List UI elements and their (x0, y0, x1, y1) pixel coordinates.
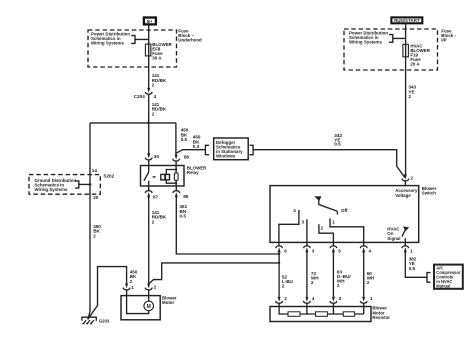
label BLOWER Relay (187, 166, 207, 176)
label Accessory Voltage (395, 188, 418, 198)
svg-text:5: 5 (338, 248, 341, 253)
label 382 YE 0.5 (409, 257, 417, 271)
svg-text:3: 3 (312, 248, 315, 253)
svg-text:C204: C204 (134, 94, 145, 99)
switch pin 3 connector (304, 242, 315, 253)
svg-text:2: 2 (154, 285, 157, 290)
svg-text:4: 4 (369, 248, 372, 253)
label 60 WH 2 (367, 271, 375, 285)
fuse block underhood dashed box (88, 30, 177, 67)
relay coil link dash (153, 176, 156, 178)
svg-text:2: 2 (367, 280, 370, 285)
svg-text:4: 4 (312, 296, 315, 301)
ground distribution dashed box (29, 175, 100, 195)
wire B+ to fuse EF8 (148, 25, 150, 44)
svg-text:2: 2 (130, 279, 133, 284)
label 63 D-BU/WH 2 (337, 270, 352, 288)
wire 450 BK right branch (175, 123, 177, 154)
switch pin 1 connector (402, 242, 413, 253)
svg-text:20 A: 20 A (410, 61, 420, 66)
svg-text:2: 2 (152, 111, 155, 116)
wire 52 L-BU switch pin 6 to resistor pin 2 (278, 252, 280, 297)
svg-text:30 A: 30 A (152, 55, 162, 60)
svg-text:3: 3 (339, 296, 342, 301)
switch pin 5 connector (330, 242, 341, 253)
label HVAC On Signal (387, 226, 400, 240)
wire 343 YE fuse to switch pin 2 (405, 57, 407, 175)
label fuse block I/P (441, 28, 456, 42)
wire 450 BK left branch to ground (88, 123, 90, 319)
svg-text:Manual: Manual (436, 284, 450, 289)
wire 141 RD/BK fuse to C204 (148, 56, 150, 88)
svg-text:Voltage: Voltage (395, 193, 411, 198)
resistor pin 1 connector (360, 296, 373, 307)
defogger reference box (205, 138, 253, 160)
label 141 RD/BK 2 (relay output) (152, 210, 167, 224)
motor pin 2 connector (145, 283, 157, 295)
resistor pin 4 connector (304, 296, 315, 307)
switch S1 Blower Switch box (270, 186, 419, 243)
svg-text:2: 2 (152, 219, 155, 224)
wire 450 BK motor pin 1 to ground (88, 267, 127, 320)
wire 63 D-BU/WH switch pin 5 to resistor pin 3 (332, 252, 334, 297)
power node RUN/START (391, 17, 422, 23)
svg-text:Switch: Switch (422, 191, 436, 196)
relay coil assembly (161, 166, 178, 187)
label 343 YE 2 (408, 85, 416, 99)
switch HVAC On Signal contact (402, 226, 409, 242)
svg-text:Windows: Windows (216, 153, 236, 158)
resistor pin 3 connector (330, 296, 342, 307)
switch pin 4 connector (360, 242, 371, 253)
svg-text:85: 85 (183, 194, 189, 199)
svg-text:Wiring Systems: Wiring Systems (35, 187, 68, 192)
wire 343 YE 0.5 defogger to switch pin 2 (253, 150, 405, 178)
svg-text:1: 1 (131, 285, 134, 290)
note power distribution (top right) (349, 31, 388, 45)
label fuse EF8 (152, 42, 172, 61)
label 343 YE 0.5 (334, 133, 342, 147)
label 141 RD/BK 2 (lower) (152, 102, 167, 116)
svg-text:I/P: I/P (441, 37, 446, 42)
relay pin 87 connector (145, 186, 158, 200)
fuse F19 (403, 44, 409, 56)
switch rotary arm (314, 196, 337, 214)
svg-text:14: 14 (92, 168, 98, 173)
switch pin 2 connector (402, 174, 414, 185)
bracket note to wire (top left) (131, 36, 149, 44)
svg-text:86: 86 (184, 154, 190, 159)
relay pin 85 connector (173, 186, 189, 199)
svg-text:Off: Off (341, 208, 348, 213)
switch contact 2 to pin 5 (319, 224, 334, 242)
svg-text:RUN/START: RUN/START (394, 18, 420, 23)
A/C compressor controls reference box (427, 265, 463, 289)
svg-text:Resistor: Resistor (372, 315, 390, 320)
svg-text:2: 2 (284, 296, 287, 301)
svg-text:2: 2 (411, 175, 414, 180)
label Blower Motor Resistor (372, 306, 390, 320)
svg-text:Motor: Motor (162, 300, 174, 305)
wire motor pin 2 branch to net 52 (149, 263, 279, 283)
label 450 BK 0.5 (181, 128, 189, 142)
svg-text:2: 2 (311, 280, 314, 285)
svg-text:0.5: 0.5 (181, 137, 188, 142)
relay pin 30 connector (145, 153, 159, 165)
wire 60 WH switch pin 4 to resistor pin 1 (363, 252, 365, 297)
switch pin 6 connector (276, 242, 288, 253)
wire 141 RD/BK relay 87 to motor pin 2 (148, 196, 150, 283)
svg-text:2: 2 (337, 283, 340, 288)
svg-text:0.5: 0.5 (180, 214, 187, 219)
ground G203 (82, 317, 110, 324)
svg-text:3: 3 (302, 220, 305, 225)
fuse EF8 (145, 44, 151, 56)
wire 141 RD/BK C204 to junction (148, 94, 150, 123)
svg-text:S202: S202 (103, 173, 114, 178)
svg-text:0.5: 0.5 (409, 266, 416, 271)
svg-text:2: 2 (152, 83, 155, 88)
svg-text:M: M (147, 304, 151, 310)
svg-text:Relay: Relay (187, 170, 199, 175)
label 450 BK 2 (motor ground) (130, 269, 138, 283)
svg-text:Wiring Systems: Wiring Systems (349, 40, 382, 45)
svg-text:4: 4 (154, 94, 157, 99)
label 450 BK 0.3 (193, 135, 201, 149)
svg-text:2: 2 (93, 233, 96, 238)
svg-text:2: 2 (408, 94, 411, 99)
relay pin 86 connector (173, 154, 190, 165)
junction main node (90, 122, 176, 124)
junction dots on net 52 (278, 253, 280, 264)
svg-text:2: 2 (282, 284, 285, 289)
switch contact 3 to pin 3 (302, 219, 307, 242)
svg-text:2: 2 (321, 225, 324, 230)
label 361 BN 0.5 (180, 204, 188, 218)
svg-text:1: 1 (370, 296, 373, 301)
label fuse block underhood (178, 28, 202, 42)
svg-text:87: 87 (153, 195, 159, 200)
fuse block I/P dashed box (344, 29, 438, 70)
bracket note to splice S202 (75, 181, 91, 188)
svg-text:4: 4 (293, 208, 296, 213)
resistor pin 2 connector (276, 296, 288, 307)
svg-text:0.3: 0.3 (193, 144, 200, 149)
svg-text:Underhood: Underhood (178, 37, 202, 42)
wire 72 WH switch pin 3 to resistor pin 4 (306, 252, 308, 297)
svg-text:Wiring Systems: Wiring Systems (91, 41, 124, 46)
svg-text:G203: G203 (99, 318, 110, 323)
wire 382 YE switch pin 1 to A/C controls (405, 252, 427, 277)
svg-text:30: 30 (154, 154, 160, 159)
label fuse F19 (410, 43, 430, 66)
svg-text:B+: B+ (147, 19, 153, 24)
resistor pack R1 Blower Motor Resistor (270, 307, 371, 322)
connector C204 pin 4 (134, 88, 157, 99)
label 141 RD/BK 2 (upper) (152, 73, 167, 87)
power node B+ (144, 18, 156, 25)
motor pin 1 connector (123, 283, 134, 295)
wire RUN/START to fuse F19 (405, 23, 407, 44)
switch contact 4 to pin 6 (279, 208, 299, 242)
svg-text:1: 1 (332, 220, 335, 225)
label 450 BK 2 (left branch) (93, 224, 101, 238)
svg-text:Signal: Signal (387, 236, 400, 241)
wire 450 BK 0.3 to defogger (176, 150, 206, 154)
label 72 WH 2 (311, 271, 319, 285)
note ground distribution (35, 178, 77, 192)
switch contact 1 to pin 4 (330, 218, 364, 242)
wire main junction to relay pin 30 (148, 123, 150, 154)
svg-text:0.5: 0.5 (334, 142, 341, 147)
label Blower Motor (162, 295, 177, 305)
label 52 L-BU 2 (282, 274, 294, 288)
motor M1 Blower Motor (121, 296, 160, 320)
wire 361 BN relay 85 to switch pin 6 node (176, 196, 279, 254)
svg-text:1: 1 (410, 248, 413, 253)
svg-text:20: 20 (93, 195, 99, 200)
note power distribution (top left) (91, 32, 130, 46)
svg-text:6: 6 (284, 248, 287, 253)
splice S202 pin labels (92, 168, 115, 200)
relay switch contact 30-87 (144, 166, 149, 187)
label Blower Switch (422, 186, 437, 196)
relay U1 BLOWER Relay box (141, 166, 185, 187)
bracket note to wire (top right) (389, 35, 406, 43)
